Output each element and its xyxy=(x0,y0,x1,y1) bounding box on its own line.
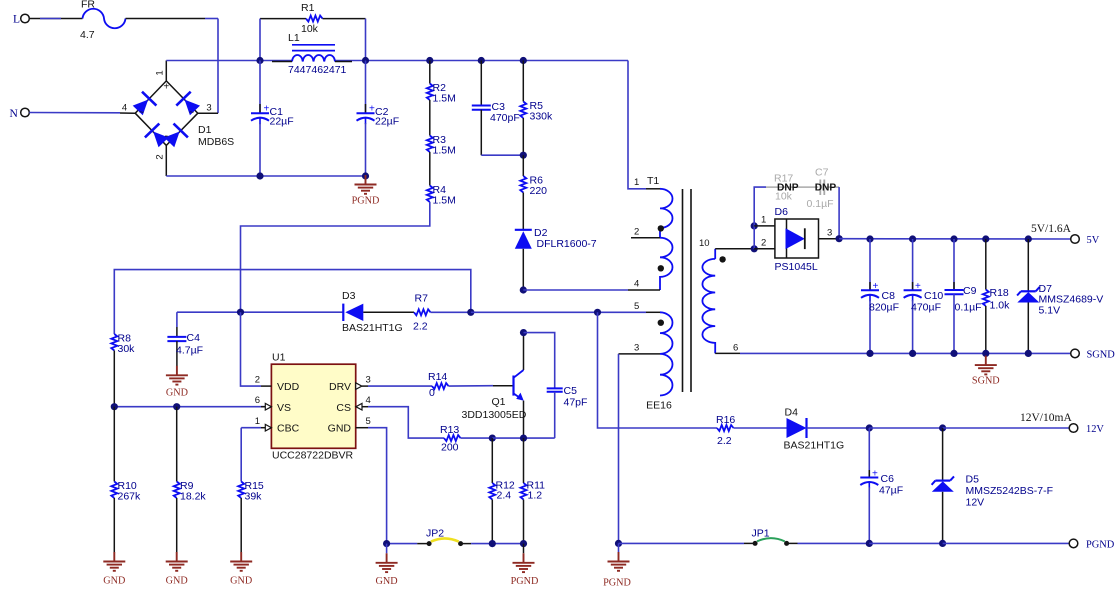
resistor R2 1.5M xyxy=(429,61,431,84)
node: C3/R5/R6 junction xyxy=(520,152,527,159)
diode D2 DFLR1600-7 xyxy=(515,231,532,249)
T1 core lines xyxy=(682,189,684,392)
wire JP2 right xyxy=(461,543,472,545)
node: D2/T1 pin4/Q1 collector xyxy=(520,286,527,293)
svg-text:PS1045L: PS1045L xyxy=(775,261,818,273)
svg-text:0.1µF: 0.1µF xyxy=(955,302,982,314)
terminal 12V xyxy=(1069,424,1078,433)
svg-text:4.7: 4.7 xyxy=(80,29,95,41)
node: D6 pin3 junction xyxy=(836,235,843,242)
svg-text:C4: C4 xyxy=(187,332,201,344)
svg-text:+: + xyxy=(915,281,921,292)
svg-text:PGND: PGND xyxy=(603,578,631,589)
svg-text:L1: L1 xyxy=(288,32,300,44)
ground GND (JP2) xyxy=(386,544,388,554)
capacitor C9 0.1uF xyxy=(950,235,957,242)
capacitor C6 47uF xyxy=(868,428,870,478)
node: R11 bottom junction xyxy=(520,540,527,547)
node: rail junction R2 xyxy=(426,57,433,64)
svg-text:D3: D3 xyxy=(342,290,356,302)
svg-text:1: 1 xyxy=(155,70,166,75)
ground GND (R10) xyxy=(103,552,125,571)
svg-text:SGND: SGND xyxy=(1087,350,1116,361)
terminal L xyxy=(21,14,30,23)
T1 polarity dot w2 xyxy=(658,265,664,271)
svg-text:12V: 12V xyxy=(1086,424,1104,435)
node: C6 top junction xyxy=(866,424,873,431)
bridge diode bottom-left xyxy=(145,124,171,150)
svg-text:DNP: DNP xyxy=(777,183,799,194)
resistor R11 1.2 xyxy=(523,438,525,483)
node: rail junction C2 xyxy=(362,57,369,64)
svg-text:U1: U1 xyxy=(272,352,286,364)
D6 pin 3 stub xyxy=(819,238,840,240)
svg-text:GND: GND xyxy=(166,576,188,587)
bridge diode bottom-right xyxy=(162,124,188,150)
wire U1 GND down to JP2 xyxy=(368,428,387,544)
ground GND (C4) xyxy=(166,366,188,385)
capacitor C8 820uF xyxy=(866,235,873,242)
svg-text:PGND: PGND xyxy=(1086,540,1115,551)
svg-text:R13: R13 xyxy=(440,424,459,436)
wire to T1 pin 4 xyxy=(523,289,628,291)
wire fuse to bridge pin3 corner xyxy=(126,18,206,20)
resistor R4 1.5M xyxy=(427,186,433,203)
svg-text:1.5M: 1.5M xyxy=(433,145,456,157)
wire R3-R4 xyxy=(429,152,431,186)
resistor R7 2.2 xyxy=(363,311,414,313)
transformer T1 primary pin 1 xyxy=(628,61,646,189)
svg-text:R16: R16 xyxy=(716,414,735,426)
wire L to fuse xyxy=(29,18,82,20)
svg-text:1: 1 xyxy=(634,177,639,188)
wire R7 node to T1 pin 5 node xyxy=(471,311,598,313)
node: rail junction C3 xyxy=(478,57,485,64)
bridge diode top-left xyxy=(131,92,157,118)
bottom input rail xyxy=(166,175,366,177)
svg-text:22µF: 22µF xyxy=(375,116,399,128)
svg-text:D4: D4 xyxy=(785,407,799,419)
resistor R17 DNP 10k (gray) xyxy=(766,186,814,188)
D6 pin 2 stub xyxy=(754,248,775,250)
svg-text:D1: D1 xyxy=(198,124,212,136)
svg-text:10: 10 xyxy=(699,238,710,249)
svg-text:+: + xyxy=(872,469,878,480)
svg-text:47pF: 47pF xyxy=(564,397,588,409)
bridge diode top-right xyxy=(176,92,202,118)
wire CBC to U1 pin 1 xyxy=(241,427,261,429)
svg-text:T1: T1 xyxy=(647,175,659,187)
resistor R8 30k xyxy=(111,334,117,351)
wire VDD node line xyxy=(177,311,343,313)
svg-text:5: 5 xyxy=(634,301,639,312)
inductor L1 7447462471 xyxy=(292,44,335,46)
svg-text:4: 4 xyxy=(122,103,127,114)
svg-text:12V/10mA: 12V/10mA xyxy=(1020,412,1072,424)
svg-text:3: 3 xyxy=(634,343,639,354)
svg-text:SGND: SGND xyxy=(972,376,1000,387)
wire N to bridge pin 4 xyxy=(29,112,120,114)
svg-text:3DD13005ED: 3DD13005ED xyxy=(462,409,527,421)
terminal 5V xyxy=(1071,235,1080,244)
svg-text:-: - xyxy=(164,130,168,142)
svg-text:5: 5 xyxy=(366,416,371,427)
svg-text:1: 1 xyxy=(761,215,766,226)
svg-text:39k: 39k xyxy=(245,491,263,503)
svg-text:330k: 330k xyxy=(530,111,554,123)
resistor R3 1.5M xyxy=(427,136,433,153)
resistor R10 267k xyxy=(113,407,115,482)
node: VS junction R8/R10 xyxy=(111,403,118,410)
node: D5 top junction xyxy=(939,424,946,431)
svg-text:2: 2 xyxy=(255,375,260,386)
svg-text:0.1µF: 0.1µF xyxy=(807,198,834,210)
VS wire xyxy=(114,406,265,408)
node: emitter/R11/C5 junction xyxy=(520,435,527,442)
resistor R15 39k xyxy=(240,428,242,482)
svg-text:3: 3 xyxy=(206,103,211,114)
svg-text:UCC28722DBVR: UCC28722DBVR xyxy=(272,450,354,462)
svg-text:BAS21HT1G: BAS21HT1G xyxy=(784,440,845,452)
T1 pin 3 stub xyxy=(619,353,661,355)
svg-text:BAS21HT1G: BAS21HT1G xyxy=(342,322,403,334)
zener diode D5 MMSZ5242BS-7-F xyxy=(942,428,944,481)
svg-text:1.5M: 1.5M xyxy=(433,195,456,207)
T1 secondary winding xyxy=(714,249,716,259)
ground GND (R9) xyxy=(166,552,188,571)
svg-text:220: 220 xyxy=(530,185,548,197)
svg-text:DNP: DNP xyxy=(815,183,837,194)
node: D6 pin1 junction xyxy=(751,222,758,229)
bridge pin 1 wire to rail xyxy=(165,61,167,81)
T1 pin 2 stub xyxy=(631,237,660,239)
node: C6 bottom junction xyxy=(866,540,873,547)
ground PGND (R11) xyxy=(523,544,525,554)
svg-text:JP2: JP2 xyxy=(426,528,444,540)
diode D3 BAS21HT1G xyxy=(345,304,363,321)
resistor R12 2.4 xyxy=(491,438,493,483)
svg-text:30k: 30k xyxy=(118,343,136,355)
resistor R14 0 xyxy=(368,385,432,387)
svg-text:C8: C8 xyxy=(882,290,896,302)
resistor R5 330k xyxy=(522,61,524,102)
svg-text:C9: C9 xyxy=(963,285,977,297)
svg-text:4: 4 xyxy=(366,395,371,406)
svg-text:GND: GND xyxy=(166,387,188,398)
svg-text:267k: 267k xyxy=(118,491,142,503)
node: R7/VS-aux junction xyxy=(467,309,474,316)
svg-text:6: 6 xyxy=(733,343,738,354)
svg-text:Q1: Q1 xyxy=(492,396,506,408)
svg-text:DRV: DRV xyxy=(329,381,351,393)
svg-text:5.1V: 5.1V xyxy=(1039,305,1061,317)
resistor R13 200 xyxy=(444,435,461,441)
svg-text:2: 2 xyxy=(634,227,639,238)
svg-text:MDB6S: MDB6S xyxy=(198,136,234,148)
wire D6 pin1-pin2 tie xyxy=(753,226,755,249)
jumper JP1 xyxy=(753,541,758,546)
node: R12 bottom junction xyxy=(489,540,496,547)
ground PGND (aux return) xyxy=(618,543,620,552)
svg-text:C5: C5 xyxy=(564,385,578,397)
wire emitter line xyxy=(492,437,554,439)
T1 polarity dot aux xyxy=(658,320,664,326)
capacitor C4 4.7uF xyxy=(176,312,178,327)
bridge rectifier D1 MDB6S xyxy=(122,70,234,159)
svg-text:1.5M: 1.5M xyxy=(433,93,456,105)
terminal PGND xyxy=(1069,539,1078,548)
terminal SGND xyxy=(1071,349,1080,358)
svg-text:D5: D5 xyxy=(966,474,980,486)
svg-text:1.0k: 1.0k xyxy=(990,300,1011,312)
main HV rail xyxy=(166,60,292,62)
wire C3 bottom xyxy=(481,154,523,156)
svg-text:1: 1 xyxy=(255,416,260,427)
svg-text:470pF: 470pF xyxy=(490,112,520,124)
U1 pin 4 CS stub xyxy=(356,403,362,410)
node: D6 pin2 junction xyxy=(751,245,758,252)
U1 pin 3 DRV stub xyxy=(356,383,362,390)
svg-text:R18: R18 xyxy=(990,287,1009,299)
svg-text:2.4: 2.4 xyxy=(497,490,512,502)
wire to 12V terminal xyxy=(943,427,1070,429)
zener diode D7 MMSZ4689-V xyxy=(1025,235,1032,242)
node: VS junction R9 xyxy=(173,403,180,410)
wire R17 left leg xyxy=(754,187,766,226)
T1 pin 6 stub xyxy=(715,352,740,354)
svg-text:2: 2 xyxy=(155,154,166,159)
D6 pin 1 stub xyxy=(754,225,775,227)
wire CS to R13 xyxy=(368,407,444,438)
capacitor C2 22uF xyxy=(365,61,367,114)
svg-text:GND: GND xyxy=(103,576,125,587)
capacitor C1 22uF xyxy=(259,61,261,114)
svg-text:200: 200 xyxy=(441,442,459,454)
svg-text:CBC: CBC xyxy=(277,422,300,434)
svg-text:R1: R1 xyxy=(301,2,315,14)
resistor R18 1.0k xyxy=(982,235,989,242)
svg-text:18.2k: 18.2k xyxy=(180,491,206,503)
T1 polarity dot w1 xyxy=(658,225,664,231)
wire vertical to bridge pin 3 xyxy=(217,19,219,114)
wire JP1 to C6 xyxy=(787,542,798,544)
node: bottom junction C2 xyxy=(362,172,369,179)
svg-text:GND: GND xyxy=(328,422,352,434)
T1 winding 2-4 xyxy=(660,238,673,290)
U1 pin 5 GND stub xyxy=(356,427,368,429)
diode D4 BAS21HT1G xyxy=(787,418,807,438)
node: VDD junction xyxy=(237,309,244,316)
diode D6 PS1045L xyxy=(775,219,819,258)
T1 pin 5 wire xyxy=(598,311,647,313)
node: JP2/GND junction xyxy=(383,540,390,547)
wire secondary return (SGND rail) xyxy=(740,352,1071,354)
svg-text:22µF: 22µF xyxy=(270,116,294,128)
svg-text:VS: VS xyxy=(277,402,291,414)
svg-text:C6: C6 xyxy=(881,473,895,485)
svg-text:EE16: EE16 xyxy=(646,400,672,412)
U1 pin 2 VDD stub xyxy=(261,385,271,387)
ground PGND (input) xyxy=(355,175,377,194)
terminal N xyxy=(21,108,30,117)
svg-text:4: 4 xyxy=(634,279,639,290)
svg-text:4.7µF: 4.7µF xyxy=(176,345,203,357)
svg-text:PGND: PGND xyxy=(511,576,539,587)
svg-text:MMSZ5242BS-7-F: MMSZ5242BS-7-F xyxy=(966,485,1054,497)
svg-text:1.2: 1.2 xyxy=(528,490,543,502)
svg-text:CS: CS xyxy=(336,402,351,414)
capacitor C3 470pF xyxy=(480,61,482,106)
wire R4 to VDD node xyxy=(241,202,430,312)
bridge pin 2 wire xyxy=(165,145,167,176)
U1 pin 1 CBC stub xyxy=(261,427,265,429)
T1 pin 4 stub xyxy=(628,289,660,291)
resistor R6 220 xyxy=(522,155,524,176)
wire C7 right leg xyxy=(838,187,840,239)
node: rail junction C1 xyxy=(256,57,263,64)
ground GND (R15) xyxy=(230,552,252,571)
svg-text:47µF: 47µF xyxy=(879,485,903,497)
svg-text:D6: D6 xyxy=(775,206,789,218)
ground SGND (R18) xyxy=(975,356,997,375)
svg-text:FR: FR xyxy=(81,0,95,11)
5V rail xyxy=(839,238,1071,240)
T1 aux winding 5-3 xyxy=(660,312,673,395)
svg-text:2: 2 xyxy=(761,238,766,249)
svg-text:2.2: 2.2 xyxy=(717,435,732,447)
U1 pin 6 VS stub xyxy=(261,406,265,408)
wire R8 top to R7 node xyxy=(114,270,471,334)
svg-text:12V: 12V xyxy=(966,497,985,509)
svg-text:7447462471: 7447462471 xyxy=(288,64,347,76)
svg-text:VDD: VDD xyxy=(277,381,300,393)
svg-text:C10: C10 xyxy=(924,290,943,302)
wire R2-R3 xyxy=(429,100,431,136)
svg-text:470µF: 470µF xyxy=(911,302,941,314)
svg-text:3: 3 xyxy=(366,375,371,386)
op-amp U1 UCC28722DBVR xyxy=(271,364,355,448)
T1 pin 10 stub xyxy=(715,248,754,250)
T1 polarity dot secondary xyxy=(719,256,725,262)
transistor Q1 3DD13005ED xyxy=(493,385,514,387)
svg-text:+: + xyxy=(163,82,169,93)
node: R13/R12 junction xyxy=(489,435,496,442)
jumper JP2 xyxy=(427,541,432,546)
node: PGND rail left junction xyxy=(615,540,622,547)
capacitor C10 470uF xyxy=(909,235,916,242)
svg-text:L: L xyxy=(13,14,20,26)
wire JP2 left xyxy=(387,543,418,545)
svg-text:5V/1.6A: 5V/1.6A xyxy=(1031,223,1072,235)
svg-text:PGND: PGND xyxy=(352,196,380,207)
svg-text:DFLR1600-7: DFLR1600-7 xyxy=(537,238,597,250)
fuse FR 4.7 xyxy=(83,9,126,29)
wire T1 pin 3 to PGND rail xyxy=(618,354,620,544)
svg-text:820µF: 820µF xyxy=(869,302,899,314)
wire 12V from aux xyxy=(598,312,718,428)
svg-text:+: + xyxy=(873,281,879,292)
svg-text:2.2: 2.2 xyxy=(413,321,428,333)
svg-text:R7: R7 xyxy=(415,293,429,305)
svg-text:JP1: JP1 xyxy=(752,528,770,540)
node: bottom junction C1 xyxy=(256,172,263,179)
svg-text:~: ~ xyxy=(139,107,144,117)
wire PGND rail to JP1 xyxy=(619,542,745,544)
svg-text:C7: C7 xyxy=(815,167,829,179)
svg-text:5V: 5V xyxy=(1087,235,1100,246)
capacitor C5 47pF xyxy=(524,333,555,389)
svg-text:3: 3 xyxy=(827,228,832,239)
svg-text:6: 6 xyxy=(255,395,260,406)
resistor R9 18.2k xyxy=(176,407,178,482)
svg-text:N: N xyxy=(10,108,19,120)
svg-text:R14: R14 xyxy=(428,371,447,383)
capacitor C7 DNP 0.1uF (gray) xyxy=(814,186,818,188)
T1 winding 1-2 xyxy=(660,189,673,238)
bridge pin 3 stub xyxy=(198,112,218,114)
svg-text:GND: GND xyxy=(376,576,398,587)
wire to PGND terminal xyxy=(943,542,1070,544)
resistor R1 10k xyxy=(260,18,306,20)
node: rail junction R5 xyxy=(520,57,527,64)
svg-text:10k: 10k xyxy=(301,23,319,35)
node: Q1 collector junction xyxy=(520,329,527,336)
resistor R16 2.2 xyxy=(717,425,734,431)
wire VDD to U1 pin 2 xyxy=(241,312,262,386)
node: D5 bottom junction xyxy=(939,540,946,547)
wire to D5 xyxy=(869,427,942,429)
svg-text:0: 0 xyxy=(429,387,435,399)
svg-text:GND: GND xyxy=(230,576,252,587)
node: T1 pin5/12V junction xyxy=(594,309,601,316)
svg-text:~: ~ xyxy=(189,107,194,117)
wire C6 to D5 bottom xyxy=(869,542,942,544)
